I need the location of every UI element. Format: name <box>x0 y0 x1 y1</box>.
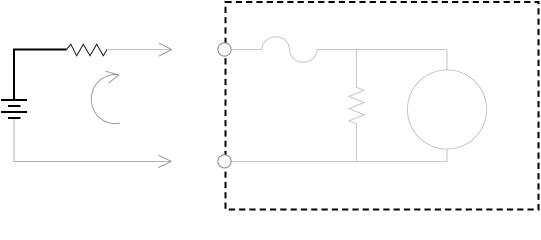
curved arrow (loop current direction) <box>91 75 120 124</box>
wire resistor to top arrow <box>107 49 171 51</box>
inductor L1 (series hump element) <box>262 37 317 63</box>
wire resistor R2 to bottom rail <box>356 124 358 162</box>
bottom rail wire terminal b to motor <box>231 161 447 163</box>
wire terminal a to inductor <box>231 49 262 51</box>
dashed enclosure (black box network) <box>226 2 539 210</box>
arrow head (top lead toward terminal a) <box>159 43 172 56</box>
terminal b <box>218 155 231 168</box>
arrow head (bottom lead toward terminal b) <box>158 155 171 168</box>
terminal a <box>218 43 231 56</box>
wire node to resistor R2 <box>356 50 358 88</box>
wire battery positive to resistor <box>14 50 67 100</box>
battery V1 <box>1 100 27 118</box>
resistor R2 (shunt) <box>349 87 364 124</box>
wire top rail to motor <box>446 50 448 71</box>
wire motor to bottom rail <box>446 149 448 162</box>
wire battery negative to bottom arrow <box>14 119 170 162</box>
resistor R1 (series) <box>67 44 108 56</box>
wire inductor to node / motor branch <box>317 49 447 51</box>
motor M (circle element) <box>407 70 486 149</box>
